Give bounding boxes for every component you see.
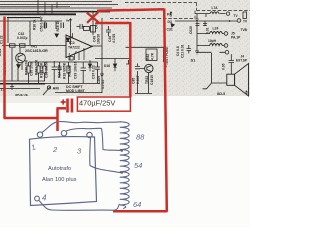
wire op-amp output	[91, 45, 102, 47]
wire x30 drop	[29, 21, 31, 45]
wire speaker loop	[197, 52, 227, 83]
resistor R24 body	[67, 62, 70, 81]
wire top right row	[175, 21, 237, 48]
svg-text:C020: C020	[189, 26, 193, 34]
wire vertical feed	[92, 12, 94, 35]
ground symbol G1	[195, 48, 199, 54]
diode D10	[17, 65, 21, 69]
svg-text:0.047: 0.047	[136, 75, 140, 84]
ground symbol G3	[10, 84, 14, 90]
wire speaker return	[203, 83, 212, 89]
svg-text:4.7K: 4.7K	[151, 52, 155, 60]
svg-text:EXT.SP: EXT.SP	[236, 58, 248, 62]
resistor R31 box	[20, 44, 26, 47]
junction dot bus	[229, 20, 231, 22]
wire bus top 4	[0, 11, 110, 13]
capacitor C33 symbol	[81, 62, 87, 76]
wire bottom row	[0, 81, 100, 84]
wire L25 row	[197, 45, 224, 47]
svg-text:0.047µ: 0.047µ	[17, 36, 27, 40]
resistor R90 body	[243, 12, 246, 19]
svg-text:4: 4	[42, 194, 47, 203]
svg-text:Autotrafo: Autotrafo	[48, 166, 71, 172]
wire vertical x70	[70, 23, 72, 45]
terminal 3	[87, 132, 92, 137]
svg-text:IC2: IC2	[69, 41, 75, 45]
wire vertical x102	[101, 18, 103, 93]
connector pin P3	[224, 44, 228, 48]
wire L24 row	[197, 33, 224, 35]
resistor R17 box	[84, 27, 90, 31]
wire bottom row thick	[0, 83, 45, 85]
wire lead ticks	[45, 2, 57, 14]
paper background	[0, 0, 250, 227]
svg-text:PA: PA	[167, 13, 172, 17]
hand wire W4 bottom	[39, 201, 120, 211]
diode D15	[66, 38, 70, 42]
wire TR22 base	[135, 64, 152, 94]
module boundary dash-dot	[110, 3, 250, 19]
terminal 1	[37, 132, 42, 137]
capacitor C17 symbol	[229, 54, 235, 74]
wire node at x127	[126, 60, 131, 64]
PA arrow	[170, 12, 172, 17]
transformer coil winding	[120, 122, 129, 209]
coil tap 88	[121, 149, 124, 152]
capacitor C21 symbol	[187, 45, 192, 54]
wire bus top 5	[0, 13, 76, 15]
svg-text:C31: C31	[167, 28, 173, 32]
red X mark	[87, 12, 99, 23]
diode D16	[88, 60, 91, 71]
red wire X link	[96, 22, 131, 25]
connector pin P4	[225, 51, 229, 55]
wire junction vertical	[37, 0, 39, 14]
junction dot on red line	[164, 65, 166, 67]
wire x12	[11, 48, 13, 81]
switch lever wire	[43, 87, 51, 96]
svg-text:54: 54	[134, 161, 142, 170]
svg-text:D16: D16	[104, 64, 110, 68]
hand wire W3 to tap 54	[90, 138, 121, 173]
capacitor C34 symbol	[52, 61, 58, 75]
svg-text:3PUE UE: 3PUE UE	[15, 93, 28, 97]
capacitor C020	[196, 24, 200, 26]
red annotation lines	[4, 9, 168, 212]
svg-text:2: 2	[52, 145, 58, 154]
transistor TR22	[145, 64, 153, 72]
svg-text:88: 88	[136, 133, 145, 142]
svg-text:C112: C112	[0, 48, 2, 56]
svg-text:470µF/25V: 470µF/25V	[79, 99, 115, 108]
svg-text:R82: R82	[146, 54, 150, 60]
svg-text:C4 0.8: C4 0.8	[176, 46, 180, 56]
capacitor C43	[77, 24, 86, 29]
inductor L26	[210, 12, 219, 14]
svg-text:C1 22: C1 22	[0, 35, 4, 44]
svg-text:R38 1k: R38 1k	[33, 19, 37, 30]
red wire to capacitor	[57, 107, 67, 110]
red wire drop to terminal 2	[56, 108, 59, 131]
wire lower row	[0, 89, 102, 93]
svg-text:C50 0.047: C50 0.047	[40, 16, 44, 31]
wire row B	[45, 21, 62, 29]
red polarity plus	[61, 99, 66, 104]
capacitor C36 body	[57, 62, 62, 77]
capacitor C48 symbol	[106, 26, 111, 36]
inductor L25	[210, 44, 223, 46]
capacitor C85 symbol	[135, 67, 140, 69]
red wire left vertical	[3, 17, 6, 119]
capacitor C37 body	[95, 62, 100, 77]
capacitor C51	[61, 23, 63, 29]
red label box	[77, 97, 130, 111]
resistor R19 box	[91, 26, 96, 33]
svg-text:TR22: TR22	[145, 76, 149, 84]
resistor R30 box	[10, 44, 16, 47]
red wire right vertical	[164, 9, 167, 212]
op-amp IC2 TA7222AP	[66, 35, 92, 58]
component lead row	[27, 62, 100, 84]
diode D14	[55, 34, 59, 38]
red wire drop to label box	[129, 22, 132, 98]
wire transistor TR1 leads	[18, 48, 22, 81]
red wire bottom horizontal	[113, 210, 168, 213]
svg-text:R16 1k: R16 1k	[56, 21, 60, 32]
resistor R180 body	[27, 62, 30, 81]
speaker SP1	[227, 64, 249, 97]
capacitor C50	[44, 23, 46, 29]
svg-text:TVB: TVB	[241, 28, 248, 32]
svg-text:2SC1815-GR: 2SC1815-GR	[25, 49, 48, 53]
svg-text:S1: S1	[191, 58, 197, 63]
hand wire W1 to coil top	[42, 122, 121, 133]
switch AM node	[47, 86, 50, 89]
svg-text:PA.1P: PA.1P	[231, 35, 241, 39]
connector pin P2	[224, 32, 228, 36]
ground symbol G5	[195, 19, 198, 20]
autotransformer hand-drawn box	[30, 137, 97, 206]
connector pin P5	[226, 12, 229, 15]
node D16 wire	[95, 59, 130, 65]
svg-text:Alan 100 plus: Alan 100 plus	[42, 177, 77, 183]
wire to op-amp input	[2, 45, 66, 47]
svg-text:R18 VR5K: R18 VR5K	[63, 62, 67, 79]
svg-text:AM: AM	[53, 86, 60, 91]
transistor TR1 internal	[18, 55, 23, 62]
red capacitor 470uF symbol	[66, 99, 73, 113]
svg-text:9a: 9a	[66, 19, 70, 23]
svg-text:100/16: 100/16	[97, 34, 101, 44]
red wire top horizontal	[97, 9, 164, 11]
scanned schematic paper area	[0, 0, 250, 96]
ground symbol G2	[245, 91, 248, 94]
svg-text:TA7222: TA7222	[68, 46, 80, 50]
ground symbol G4	[100, 71, 104, 77]
capacitor C022	[203, 24, 207, 26]
transistor TR1	[16, 53, 26, 63]
wire bus top 2	[0, 4, 118, 6]
coil tap 54	[121, 171, 124, 174]
connector pin P1	[237, 19, 241, 23]
hand wire W2 to tap	[66, 128, 121, 150]
svg-text:C21 0.01: C21 0.01	[181, 44, 185, 58]
op-amp pin stubs	[70, 33, 84, 60]
resistor R184 body	[43, 62, 46, 81]
wire bus top 3b	[0, 5, 70, 7]
wire bus top 1	[0, 1, 112, 3]
svg-text:C85: C85	[132, 78, 136, 84]
svg-text:0.05: 0.05	[222, 63, 226, 70]
wire links row	[29, 62, 98, 84]
wire bus top 3	[0, 7, 112, 9]
resistor R0 under op-amp	[69, 57, 73, 61]
svg-text:C33 100/16: C33 100/16	[74, 61, 78, 79]
svg-text:L7A: L7A	[212, 6, 219, 10]
svg-text:4.7/25: 4.7/25	[101, 79, 105, 89]
wire sub bus	[7, 17, 40, 19]
transistor TR22 internal	[147, 66, 152, 72]
svg-text:0.01: 0.01	[206, 27, 210, 34]
svg-text:10µH: 10µH	[208, 39, 217, 43]
terminal 2	[61, 131, 66, 136]
svg-text:4.7/25: 4.7/25	[112, 34, 116, 43]
red wire horizontal to transformer	[4, 117, 58, 120]
svg-text:C37 0.22: C37 0.22	[92, 65, 96, 79]
terminal 4	[35, 196, 40, 201]
diode D17	[113, 64, 116, 71]
wire node row A	[0, 18, 45, 43]
resistor R82 box	[146, 49, 157, 61]
svg-text:MOD LIMIT: MOD LIMIT	[66, 89, 86, 93]
wire row x125-163	[126, 47, 164, 62]
svg-text:C1815: C1815	[150, 75, 154, 85]
svg-text:L24: L24	[213, 27, 219, 31]
svg-text:64: 64	[133, 200, 141, 209]
supply pin arrow	[69, 19, 71, 23]
resistor R181 body	[37, 62, 40, 81]
svg-text:8Ω-5: 8Ω-5	[217, 92, 225, 96]
wire top corner row	[195, 14, 226, 19]
